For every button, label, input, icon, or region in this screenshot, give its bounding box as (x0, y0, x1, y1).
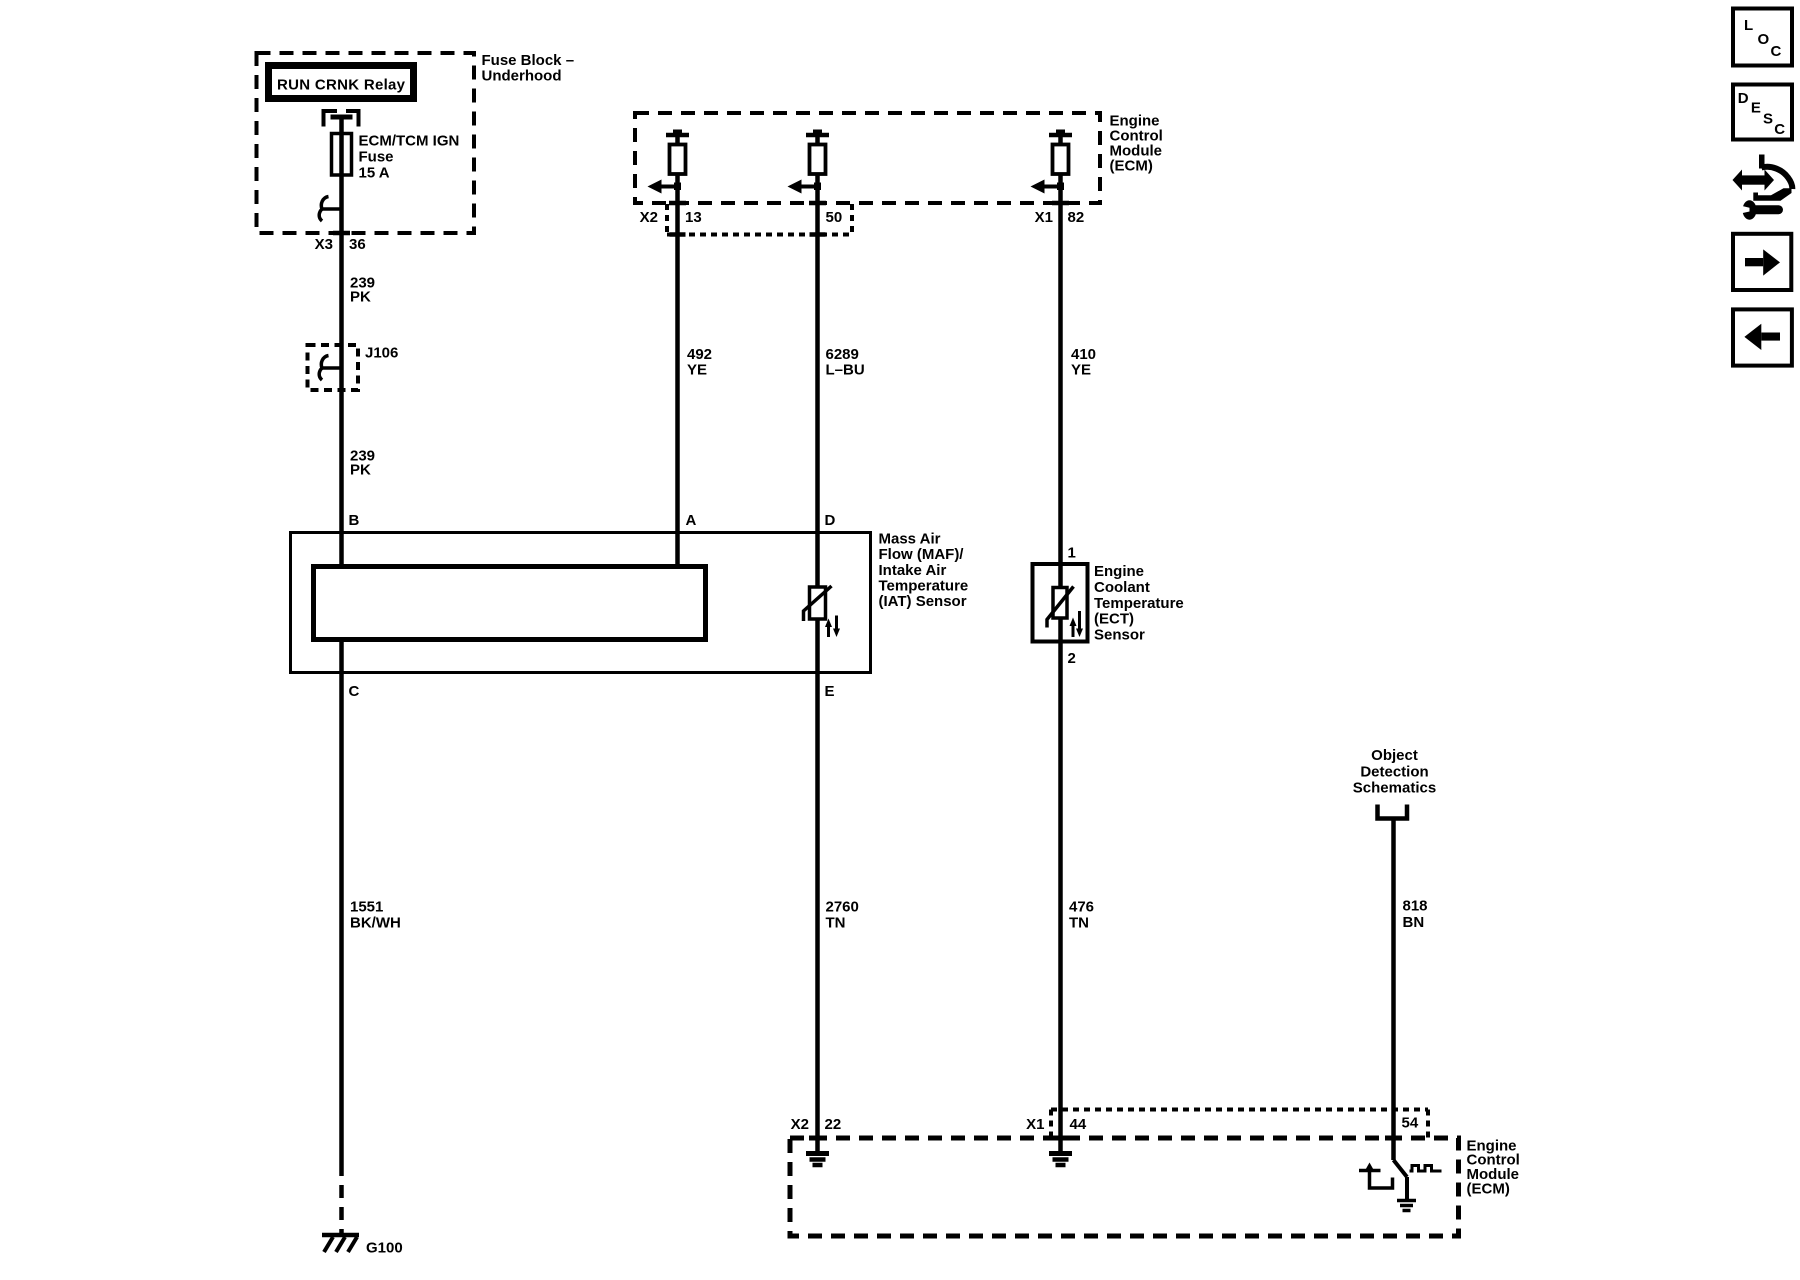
svg-text:Flow (MAF)/: Flow (MAF)/ (879, 546, 965, 563)
label Mass Air Flow (MAF)/Intake Air Temperature (IAT) Sensor (879, 531, 969, 611)
off-page connector bracket (1378, 805, 1408, 819)
svg-text:C: C (349, 683, 360, 700)
wire 6289 L-BU from ECM pin 50 to MAF pin D / wire 2760 TN to ground (815, 174, 820, 1152)
svg-text:C: C (1774, 121, 1785, 138)
svg-text:6289: 6289 (826, 346, 859, 363)
relay terminal clip (324, 111, 359, 127)
svg-text:22: 22 (825, 1116, 842, 1133)
svg-text:B: B (349, 512, 360, 529)
svg-text:TN: TN (826, 915, 846, 932)
svg-text:2760: 2760 (826, 899, 859, 916)
MAF/IAT sensor outer box (291, 533, 871, 673)
svg-text:Fuse: Fuse (359, 149, 394, 166)
svg-text:Fuse Block –: Fuse Block – (482, 52, 575, 69)
svg-text:PK: PK (350, 289, 371, 306)
connector terminal hook (J106) (319, 356, 341, 381)
label Engine Control Module (ECM) bottom (1467, 1138, 1520, 1198)
svg-text:RUN CRNK Relay: RUN CRNK Relay (277, 77, 406, 94)
svg-text:YE: YE (1071, 362, 1091, 379)
double arrow icon (1733, 170, 1775, 191)
svg-text:YE: YE (687, 362, 707, 379)
svg-text:Underhood: Underhood (482, 68, 562, 85)
connector X2 dotted outline (pins 13-50) (667, 204, 852, 235)
curved routing arrow icon (1753, 155, 1792, 201)
pin labels X2 13 50 X1 82 (640, 209, 1085, 226)
svg-text:492: 492 (687, 346, 712, 363)
svg-text:82: 82 (1068, 209, 1085, 226)
driver U2 (pin X1-50) top T-bar (806, 130, 829, 146)
ground (ECM pin X2-22) (806, 1154, 829, 1166)
driver U2 (pin X1-50) output arrow (788, 180, 822, 194)
back arrow icon (1733, 309, 1792, 365)
LOC navigation icon (1733, 9, 1792, 66)
label Object Detection Schematics (1353, 747, 1436, 797)
svg-text:1: 1 (1068, 545, 1076, 562)
connector labels X3 36 (315, 236, 366, 253)
driver U1 (pin X2-13) resistor element (670, 145, 686, 175)
MAF sensing element inner box (314, 567, 706, 640)
svg-text:2: 2 (1068, 650, 1076, 667)
ECT variation arrows (1070, 611, 1084, 637)
svg-text:410: 410 (1071, 346, 1096, 363)
driver U1 (pin X2-13) output arrow (648, 180, 682, 194)
DESC navigation icon (1733, 85, 1792, 140)
svg-text:BK/WH: BK/WH (350, 915, 401, 932)
svg-text:X1: X1 (1035, 209, 1053, 226)
svg-text:13: 13 (685, 209, 702, 226)
svg-text:L–BU: L–BU (826, 362, 865, 379)
svg-text:X2: X2 (791, 1116, 809, 1133)
pin labels X2 22 X1 44 54 (791, 1115, 1419, 1134)
driver U3 (pin X1-82) top T-bar (1049, 130, 1072, 146)
svg-text:Engine: Engine (1094, 563, 1144, 580)
svg-text:D: D (825, 512, 836, 529)
ticks at ECM box bottom crossings (669, 201, 1069, 206)
svg-text:O: O (1758, 31, 1770, 48)
svg-text:(ECT): (ECT) (1094, 611, 1134, 628)
ECT sensor box (1033, 564, 1088, 642)
wire label 476 TN (1069, 899, 1094, 932)
fuse block underhood dashed box (257, 53, 475, 233)
wire label 818 BN (1403, 898, 1428, 932)
svg-text:(IAT) Sensor: (IAT) Sensor (879, 593, 967, 610)
svg-text:50: 50 (826, 209, 843, 226)
driver U3 (pin X1-82) resistor element (1053, 145, 1069, 175)
ground (ECM pin X1-44) (1049, 1154, 1072, 1166)
driver U1 (pin X2-13) top T-bar (666, 130, 689, 146)
svg-text:Coolant: Coolant (1094, 579, 1150, 596)
IAT thermistor RT1 (804, 586, 832, 621)
tick at fuse block bottom crossing (333, 231, 350, 236)
svg-text:Object: Object (1371, 747, 1418, 764)
svg-text:J106: J106 (365, 345, 398, 362)
svg-text:BN: BN (1403, 914, 1425, 931)
internal ground (pin 54 driver) (1397, 1201, 1416, 1211)
wire 410 YE from ECM pin 82 to ECT / wire 476 TN to ground (1058, 174, 1063, 1152)
wire 239 PK from relay through fuse to MAF pin B (339, 117, 344, 567)
wire label 239 PK (upper) (350, 275, 375, 306)
ticks at dotted connector bottom crossings (670, 232, 826, 237)
wire 492 YE from ECM pin 13 to MAF pin A (675, 174, 680, 567)
svg-text:PK: PK (350, 462, 371, 479)
connector terminal hook (fuse block exit) (319, 197, 341, 222)
svg-text:(ECM): (ECM) (1110, 158, 1153, 175)
svg-text:X3: X3 (315, 236, 333, 253)
svg-text:X1: X1 (1026, 1116, 1044, 1133)
pin letters B A D (349, 512, 836, 529)
svg-text:54: 54 (1402, 1115, 1419, 1132)
engine control module (ECM) dashed box top (635, 113, 1100, 203)
svg-text:Sensor: Sensor (1094, 627, 1145, 644)
svg-text:A: A (686, 512, 697, 529)
fuse ECM/TCM IGN 15 A (332, 134, 352, 176)
wire label 239 PK (lower) (350, 448, 375, 479)
svg-text:(ECM): (ECM) (1467, 1181, 1510, 1198)
svg-text:S: S (1763, 111, 1773, 128)
wrench icon (1737, 200, 1784, 220)
low-side driver switch at pin 54 (1394, 1160, 1408, 1199)
forward arrow icon (1733, 234, 1791, 290)
wire 818 BN (1391, 819, 1396, 1160)
svg-text:E: E (1751, 99, 1761, 116)
ground G100 (322, 1235, 359, 1252)
pin letters C E (349, 683, 835, 700)
svg-text:ECM/TCM IGN: ECM/TCM IGN (359, 133, 460, 150)
ECT thermistor RT2 (1047, 587, 1074, 628)
connector X1 dotted outline (pins 44-54) (1051, 1110, 1428, 1139)
label Engine Control Module (ECM) top (1110, 113, 1163, 175)
wire label 2760 TN (826, 899, 859, 932)
splice J106 dashed box (308, 345, 359, 390)
svg-text:Schematics: Schematics (1353, 780, 1436, 797)
svg-text:E: E (825, 683, 835, 700)
svg-text:G100: G100 (366, 1240, 403, 1257)
svg-text:D: D (1738, 90, 1749, 107)
svg-text:TN: TN (1069, 915, 1089, 932)
svg-text:Mass Air: Mass Air (879, 531, 941, 548)
svg-text:Temperature: Temperature (879, 578, 969, 595)
svg-text:15 A: 15 A (359, 165, 390, 182)
relay RUN CRNK Relay (269, 66, 414, 99)
svg-text:Intake Air: Intake Air (879, 562, 947, 579)
wire 1551 BK/WH from MAF pin C (339, 640, 344, 1176)
driver control symbol (arrow hook) (1359, 1163, 1393, 1189)
svg-text:X2: X2 (640, 209, 658, 226)
label ECM/TCM IGN Fuse 15 A (359, 133, 460, 182)
engine control module (ECM) dashed box bottom (790, 1138, 1459, 1236)
label Fuse Block - Underhood (482, 52, 575, 85)
driver U3 (pin X1-82) output arrow (1031, 180, 1065, 194)
PWM signal squiggle (1410, 1166, 1442, 1172)
driver U2 (pin X1-50) resistor element (810, 145, 826, 175)
ticks at bottom ECM box top crossings (809, 1136, 1402, 1141)
svg-text:Detection: Detection (1360, 764, 1428, 781)
svg-text:476: 476 (1069, 899, 1094, 916)
svg-text:44: 44 (1070, 1116, 1087, 1133)
wire label 1551 BK/WH (350, 899, 401, 932)
wire labels 492 YE / 6289 L-BU / 410 YE (687, 346, 1096, 379)
svg-text:L: L (1744, 17, 1753, 34)
wire to G100 dashed segment (339, 1176, 344, 1236)
svg-text:C: C (1771, 43, 1782, 60)
IAT variation arrows (825, 616, 840, 638)
svg-text:36: 36 (349, 236, 366, 253)
svg-text:Temperature: Temperature (1094, 595, 1184, 612)
svg-text:818: 818 (1403, 898, 1428, 915)
label Engine Coolant Temperature (ECT) Sensor (1094, 563, 1184, 644)
svg-text:1551: 1551 (350, 899, 383, 916)
